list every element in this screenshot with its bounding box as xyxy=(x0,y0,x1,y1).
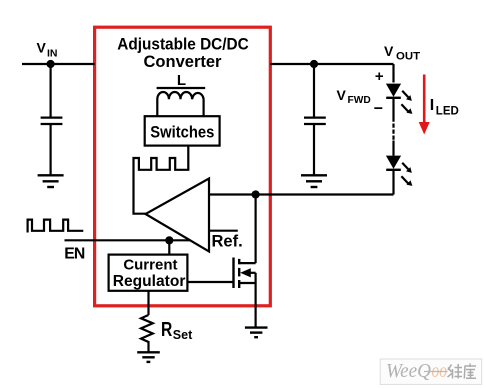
ground (output cap) xyxy=(301,175,327,187)
svg-text:LED: LED xyxy=(436,105,459,117)
svg-text:Converter: Converter xyxy=(144,53,223,71)
svg-text:Current: Current xyxy=(123,257,177,274)
svg-text:V: V xyxy=(337,87,347,103)
ILED current arrow xyxy=(419,75,430,135)
svg-text:V: V xyxy=(37,39,47,55)
svg-text:Switches: Switches xyxy=(150,124,214,142)
watermark CJK glyphs (维库) xyxy=(448,364,477,379)
node: EN junction xyxy=(165,236,173,244)
LED D1 emission arrows xyxy=(401,91,412,114)
svg-text:L: L xyxy=(177,72,186,89)
svg-text:Adjustable DC/DC: Adjustable DC/DC xyxy=(117,36,249,54)
wire: VIN rail xyxy=(22,63,95,65)
LED D2 xyxy=(386,156,401,170)
svg-text:Regulator: Regulator xyxy=(113,273,186,290)
wire: EN input xyxy=(65,239,191,241)
svg-text:V: V xyxy=(384,43,394,59)
svg-text:R: R xyxy=(161,319,173,341)
LED D2 emission arrows xyxy=(401,163,412,186)
label ILED xyxy=(430,97,459,117)
node: VIN junction xyxy=(47,60,55,68)
dashed wire between LEDs xyxy=(392,98,394,156)
op-amp comparator U1 xyxy=(146,179,210,252)
capacitor C_in xyxy=(41,64,63,175)
svg-text:EN: EN xyxy=(64,245,85,262)
wire: regulator to RSet xyxy=(147,291,149,315)
wire: switching node PWM comb xyxy=(134,146,189,214)
converter block outline (red box) xyxy=(95,27,271,306)
node: VOUT junction xyxy=(310,60,318,68)
wire: LED cathode return xyxy=(392,170,394,195)
label RSet xyxy=(161,319,193,342)
label: Adjustable DC/DC Converter xyxy=(117,36,249,71)
switches block xyxy=(145,116,220,145)
svg-text:OUT: OUT xyxy=(396,50,420,62)
node: feedback-drain junction xyxy=(252,190,260,198)
label VOUT xyxy=(384,43,420,62)
wire: VOUT to LED anode xyxy=(392,64,394,83)
PWM waveform symbol (EN clock) xyxy=(28,220,84,233)
LED D1 xyxy=(386,84,401,98)
inductor L xyxy=(157,88,206,116)
resistor RSet xyxy=(141,315,153,352)
svg-text:IN: IN xyxy=(47,48,58,60)
svg-text:I: I xyxy=(430,97,434,114)
wire: Ref stub xyxy=(209,230,238,232)
svg-text:Set: Set xyxy=(173,328,193,342)
svg-text:−: − xyxy=(374,101,383,118)
ground (RSet) xyxy=(137,352,160,362)
capacitor C_out xyxy=(304,64,326,175)
transistor Q1 NMOS xyxy=(234,258,256,289)
label VFWD xyxy=(337,87,371,106)
wire: regulator to MOSFET gate xyxy=(187,281,233,283)
wire: VOUT rail xyxy=(270,63,393,65)
watermark box xyxy=(380,359,482,384)
svg-text:+: + xyxy=(375,68,384,85)
label VIN xyxy=(37,39,58,59)
wire: MOSFET source to ground xyxy=(255,273,257,327)
wire: comparator output / LED feedback rail xyxy=(209,193,394,195)
ground (MOSFET source) xyxy=(245,328,268,338)
ground (input cap) xyxy=(38,175,64,187)
wire: junction to current regulator xyxy=(168,240,170,254)
svg-text:Ref.: Ref. xyxy=(212,233,243,251)
current regulator block xyxy=(109,255,188,291)
svg-text:FWD: FWD xyxy=(348,95,371,106)
wire: junction to MOSFET drain xyxy=(255,195,257,264)
